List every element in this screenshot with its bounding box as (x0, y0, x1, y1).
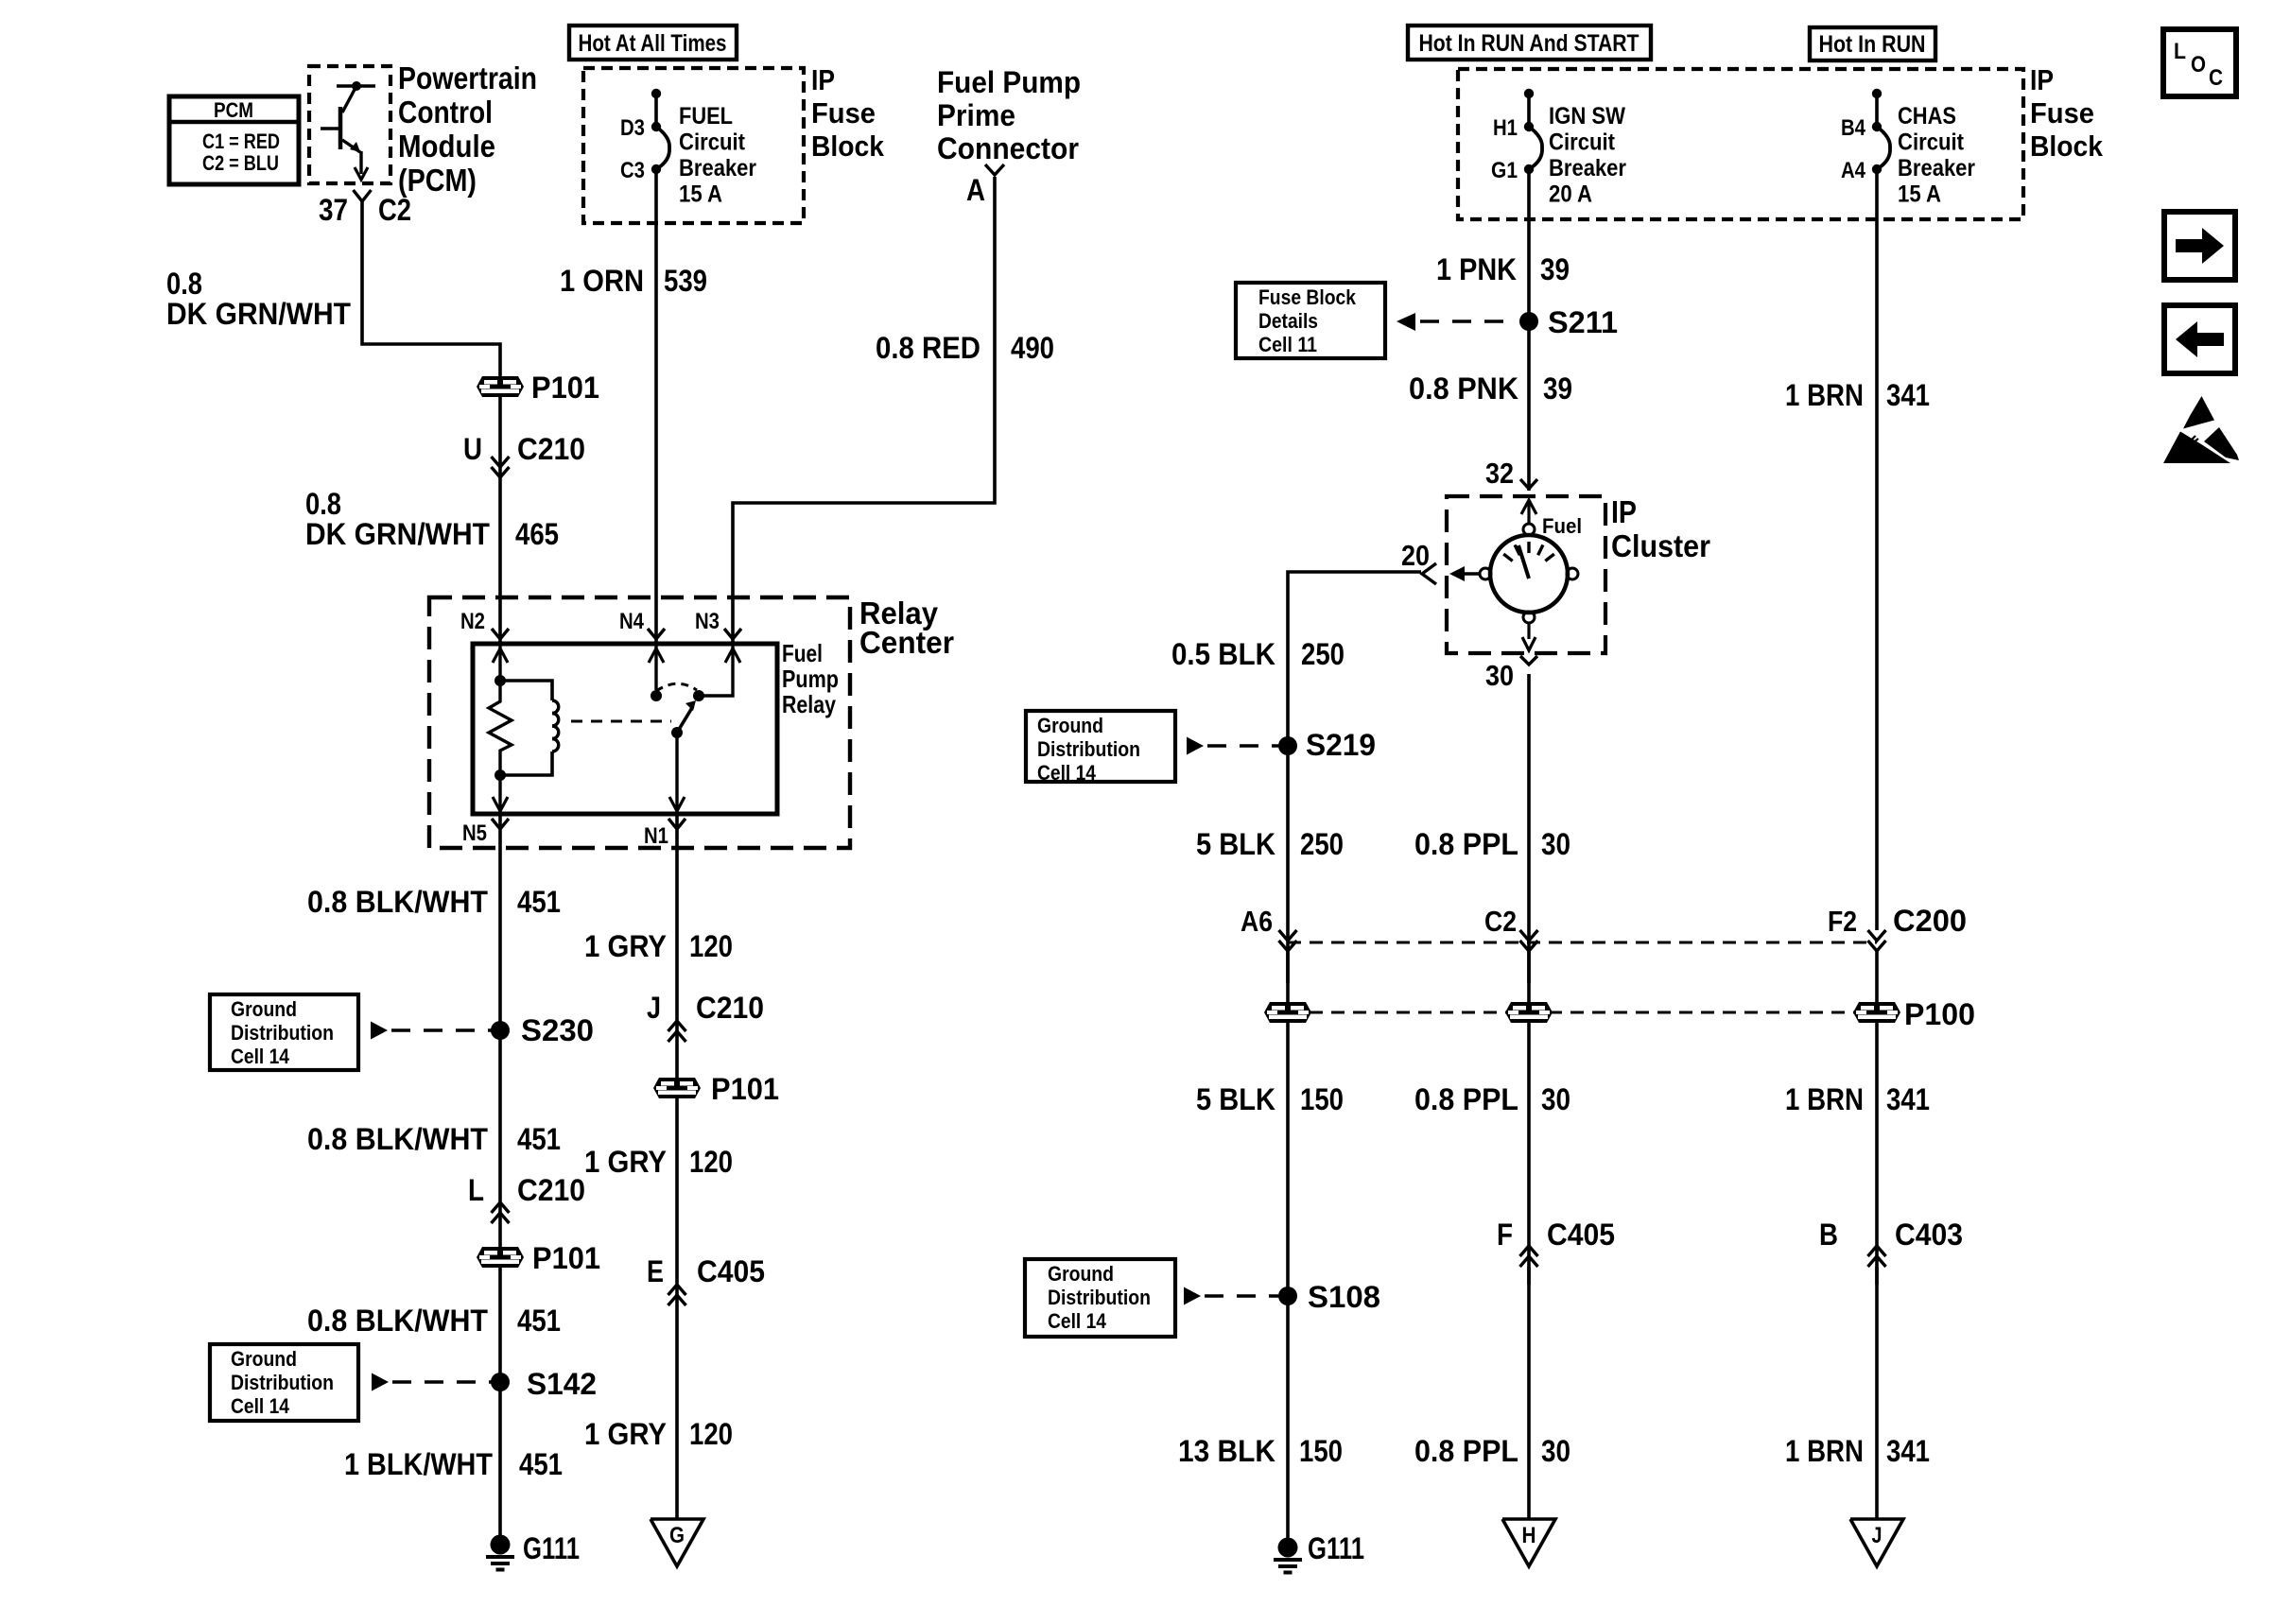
svg-text:1 BRN: 1 BRN (1785, 378, 1864, 412)
reference arrow to splice S211 (1397, 313, 1415, 331)
svg-text:Distribution: Distribution (1048, 1286, 1151, 1309)
svg-text:IP: IP (1611, 494, 1637, 529)
relay switch fixed contact from N4 (654, 644, 657, 690)
svg-text:1 BRN: 1 BRN (1785, 1082, 1864, 1116)
svg-text:Cell 14: Cell 14 (1048, 1309, 1107, 1333)
terminal N4 relay (648, 629, 665, 639)
svg-text:30: 30 (1485, 659, 1514, 692)
svg-text:Fuse: Fuse (811, 96, 876, 130)
IP fuse block dashed box right (1458, 69, 2023, 219)
svg-text:0.8 PPL: 0.8 PPL (1414, 1434, 1518, 1468)
wire A6 to S108 (1286, 951, 1290, 1296)
svg-text:5 BLK: 5 BLK (1196, 827, 1275, 861)
svg-text:IGN SW: IGN SW (1549, 103, 1625, 130)
relay coil branch wires (498, 644, 501, 681)
svg-text:150: 150 (1300, 1082, 1344, 1116)
svg-text:C2: C2 (378, 193, 411, 227)
Fuel Pump Relay box (473, 644, 777, 814)
svg-text:1 GRY: 1 GRY (584, 1145, 667, 1179)
svg-text:1 BRN: 1 BRN (1785, 1434, 1864, 1468)
PCM module dashed box (309, 66, 390, 183)
ground terminal G triangle (651, 1519, 703, 1566)
svg-text:539: 539 (664, 264, 707, 298)
wire 1 GRY 120 from N1 to ground G (675, 814, 679, 1519)
svg-text:A6: A6 (1241, 905, 1273, 938)
svg-text:Relay: Relay (782, 690, 836, 718)
svg-text:0.8: 0.8 (166, 267, 202, 301)
reference arrow to splice S219 (1187, 737, 1204, 755)
relay coil-switch linkage dashes (571, 720, 671, 723)
icon arrow right box (2164, 212, 2235, 280)
svg-text:S108: S108 (1308, 1280, 1380, 1314)
svg-text:Distribution: Distribution (1037, 737, 1140, 761)
ground G111 right (1278, 1538, 1298, 1558)
svg-text:Fuel: Fuel (1542, 514, 1582, 538)
header Hot In RUN (1810, 27, 1935, 60)
svg-text:N4: N4 (619, 609, 645, 634)
svg-text:P100: P100 (1904, 997, 1975, 1031)
inline connector P100 on BLK (1264, 1002, 1311, 1023)
svg-text:30: 30 (1541, 1082, 1570, 1116)
reference arrow to splice S142 (372, 1373, 389, 1391)
svg-text:Ground: Ground (231, 1347, 297, 1371)
svg-text:0.8: 0.8 (305, 487, 341, 521)
junction dot coil top (495, 675, 506, 686)
svg-text:C1 = RED: C1 = RED (202, 130, 280, 153)
splice S230 (491, 1021, 510, 1040)
svg-text:O: O (2191, 52, 2206, 78)
svg-text:C210: C210 (517, 1173, 585, 1207)
header Hot In RUN And START (1408, 26, 1651, 60)
svg-text:DK GRN/WHT: DK GRN/WHT (305, 517, 490, 551)
svg-text:Fuel Pump: Fuel Pump (937, 65, 1081, 99)
svg-text:465: 465 (515, 517, 559, 551)
svg-text:Breaker: Breaker (1549, 155, 1626, 181)
svg-text:FUEL: FUEL (679, 103, 733, 130)
reference box Ground Distribution Cell 14 for S219 (1026, 711, 1175, 782)
svg-text:37: 37 (319, 193, 348, 227)
icon arrow left box (2164, 305, 2235, 373)
svg-text:0.8 PPL: 0.8 PPL (1414, 1082, 1518, 1116)
svg-text:Cell 14: Cell 14 (231, 1045, 290, 1068)
wire 0.8 DK GRN/WHT from PCM pin 37 (362, 201, 500, 376)
svg-text:120: 120 (689, 1145, 733, 1179)
terminal A fuel pump prime connector (985, 164, 1004, 175)
svg-text:N3: N3 (695, 609, 720, 634)
svg-text:20 A: 20 A (1549, 181, 1592, 208)
svg-text:Breaker: Breaker (1898, 155, 1975, 181)
svg-text:B4: B4 (1841, 115, 1866, 141)
svg-text:S219: S219 (1306, 728, 1376, 762)
svg-text:Ground: Ground (1037, 714, 1103, 737)
svg-text:Cluster: Cluster (1611, 528, 1710, 563)
svg-text:C210: C210 (696, 991, 764, 1025)
splice S211 (1519, 312, 1538, 331)
terminal 30 IP cluster (1520, 656, 1537, 665)
wire 0.5 BLK 250 from gauge pin 20 (1288, 572, 1421, 983)
svg-text:C403: C403 (1895, 1218, 1963, 1252)
svg-text:U: U (463, 432, 482, 466)
svg-text:Cell 14: Cell 14 (1037, 761, 1097, 785)
terminal N1 relay (668, 819, 685, 829)
svg-text:5 BLK: 5 BLK (1196, 1082, 1275, 1116)
relay resistor (489, 681, 512, 775)
relay switch moving contact to N3 (699, 644, 733, 696)
svg-text:G111: G111 (523, 1531, 580, 1565)
IP Cluster dashed box (1447, 496, 1605, 653)
svg-text:H: H (1522, 1523, 1536, 1548)
terminal N3 relay (724, 629, 741, 639)
svg-text:Distribution: Distribution (231, 1371, 334, 1394)
terminal N2 relay (492, 629, 509, 639)
svg-text:Cell 14: Cell 14 (231, 1394, 290, 1418)
inline connector P100 dashed link (1288, 1011, 1877, 1014)
svg-text:1 BLK/WHT: 1 BLK/WHT (344, 1447, 493, 1481)
header Hot At All Times (569, 26, 737, 60)
svg-text:150: 150 (1299, 1434, 1343, 1468)
svg-text:C210: C210 (517, 432, 585, 466)
svg-text:30: 30 (1541, 1434, 1570, 1468)
fuel gauge output arrows (1527, 623, 1530, 639)
svg-text:H1: H1 (1493, 115, 1518, 141)
svg-text:Fuel: Fuel (782, 639, 823, 667)
svg-text:B: B (1819, 1218, 1838, 1252)
svg-text:0.8 BLK/WHT: 0.8 BLK/WHT (307, 885, 488, 919)
svg-text:0.8 BLK/WHT: 0.8 BLK/WHT (307, 1122, 488, 1156)
wire 1 BRN 341 to ground J (1875, 1267, 1879, 1519)
inline connector P101 on GRY (653, 1078, 701, 1098)
svg-text:C405: C405 (1547, 1218, 1615, 1252)
svg-text:0.5 BLK: 0.5 BLK (1171, 637, 1275, 671)
connector C200 dashed crossing line (1288, 942, 1877, 944)
transistor Q1 PCM fuel pump driver (337, 84, 375, 88)
terminal 37 C2 on PCM (354, 190, 372, 201)
svg-text:S211: S211 (1548, 305, 1618, 339)
svg-text:N1: N1 (644, 823, 668, 849)
inline connector P101 lower left (477, 1247, 524, 1268)
svg-text:Hot In RUN And START: Hot In RUN And START (1419, 30, 1640, 57)
svg-text:D3: D3 (620, 115, 645, 141)
svg-text:Hot At All Times: Hot At All Times (579, 30, 727, 57)
splice S108 (1278, 1287, 1297, 1305)
svg-text:Control: Control (398, 95, 493, 130)
reference box Ground Distribution Cell 14 for S230 (210, 994, 358, 1070)
relay coil (552, 700, 559, 714)
terminal N5 relay (492, 819, 509, 829)
svg-text:13 BLK: 13 BLK (1178, 1434, 1275, 1468)
svg-text:341: 341 (1886, 378, 1930, 412)
svg-text:PCM: PCM (214, 98, 253, 122)
svg-text:IP: IP (811, 63, 835, 96)
svg-text:15 A: 15 A (1898, 181, 1941, 208)
relay switch throw dashed arc (656, 683, 697, 691)
svg-text:S230: S230 (521, 1013, 594, 1047)
svg-text:Fuse: Fuse (2030, 96, 2094, 130)
svg-text:J: J (1872, 1523, 1883, 1548)
svg-text:Circuit: Circuit (1898, 130, 1965, 156)
svg-text:P101: P101 (532, 1241, 600, 1275)
svg-text:Prime: Prime (937, 98, 1015, 132)
svg-text:C2: C2 (1484, 905, 1517, 938)
fuel gauge ticks and needle (1503, 554, 1512, 561)
relay switch output wire to N1 (675, 733, 678, 814)
svg-text:A4: A4 (1841, 158, 1866, 183)
svg-text:Hot In RUN: Hot In RUN (1819, 31, 1926, 58)
svg-text:F: F (1497, 1218, 1513, 1252)
svg-text:Block: Block (2030, 130, 2104, 163)
svg-text:451: 451 (517, 1304, 561, 1338)
svg-text:0.8 RED: 0.8 RED (876, 331, 980, 365)
svg-text:250: 250 (1300, 827, 1344, 861)
svg-text:Center: Center (859, 625, 954, 660)
wire 1 ORN 539 from breaker C3 to relay N4 (654, 169, 658, 644)
wire 0.8 PPL 30 from IP cluster (1527, 674, 1531, 983)
svg-text:Details: Details (1258, 309, 1318, 333)
svg-text:Powertrain: Powertrain (398, 60, 537, 95)
wire 13 BLK 150 from S108 to G111 (1286, 1296, 1290, 1547)
svg-text:451: 451 (517, 1122, 561, 1156)
svg-text:30: 30 (1541, 827, 1570, 861)
svg-text:CHAS: CHAS (1898, 103, 1956, 130)
svg-text:Breaker: Breaker (679, 155, 756, 181)
svg-text:250: 250 (1301, 637, 1345, 671)
svg-text:Connector: Connector (937, 131, 1079, 165)
svg-text:C405: C405 (697, 1254, 765, 1288)
icon ESD static sensitive warning (2183, 396, 2214, 429)
inline connector P101 on DK GRN/WHT (477, 376, 524, 397)
svg-text:Circuit: Circuit (679, 130, 746, 156)
inline connector P100 on BRN (1853, 1002, 1900, 1023)
svg-text:120: 120 (689, 929, 733, 963)
icon LOC locator box (2163, 29, 2236, 96)
circuit breaker IGN SW 20 A (1524, 89, 1534, 98)
svg-text:J: J (647, 991, 661, 1025)
wire 0.8 PPL 30 to ground H (1527, 1267, 1531, 1519)
reference arrow to splice S108 (1184, 1287, 1201, 1305)
svg-text:39: 39 (1540, 252, 1570, 286)
svg-text:451: 451 (517, 885, 561, 919)
svg-text:C3: C3 (620, 158, 645, 183)
ground terminal J triangle (1850, 1519, 1903, 1566)
svg-text:L: L (468, 1173, 484, 1207)
wire F2 to C403 B (1875, 951, 1879, 1285)
svg-text:N5: N5 (462, 821, 487, 846)
svg-text:A: A (966, 173, 985, 207)
svg-text:S142: S142 (527, 1367, 597, 1401)
svg-text:C2 = BLU: C2 = BLU (202, 151, 279, 175)
svg-text:C200: C200 (1893, 904, 1967, 938)
svg-text:490: 490 (1011, 331, 1054, 365)
svg-text:20: 20 (1401, 539, 1430, 572)
svg-text:Ground: Ground (1048, 1262, 1114, 1286)
svg-text:451: 451 (519, 1447, 563, 1481)
junction dot coil bottom (495, 769, 506, 781)
svg-text:Cell 11: Cell 11 (1258, 333, 1317, 356)
IP fuse block dashed box left (583, 68, 804, 223)
wire 1 BRN 341 from breaker A4 (1875, 169, 1879, 930)
svg-text:L: L (2174, 39, 2186, 64)
wire 1 PNK 39 from breaker G1 (1527, 169, 1531, 321)
wire 0.8 RED 490 to relay N3 (733, 177, 995, 644)
svg-text:DK GRN/WHT: DK GRN/WHT (166, 297, 351, 331)
svg-text:0.8 PPL: 0.8 PPL (1414, 827, 1518, 861)
svg-text:E: E (647, 1254, 664, 1288)
svg-text:120: 120 (689, 1417, 733, 1451)
svg-text:G1: G1 (1491, 158, 1518, 183)
wire 0.8 BLK/WHT 451 from N5 to G111 (498, 814, 502, 1545)
svg-text:IP: IP (2030, 63, 2054, 96)
svg-text:0.8 BLK/WHT: 0.8 BLK/WHT (307, 1304, 488, 1338)
svg-text:Distribution: Distribution (231, 1021, 334, 1045)
fuel gauge in IP cluster (1521, 500, 1536, 514)
Relay Center dashed box (429, 597, 850, 848)
wire C2 to C405 F (1527, 951, 1531, 1285)
reference box Ground Distribution Cell 14 for S108 (1025, 1259, 1175, 1337)
relay switch arm (671, 727, 683, 738)
reference box Ground Distribution Cell 14 for S142 (210, 1344, 358, 1421)
svg-text:Pump: Pump (782, 665, 839, 693)
svg-text:N2: N2 (460, 609, 485, 634)
svg-text:0.8 PNK: 0.8 PNK (1409, 371, 1518, 406)
svg-text:P101: P101 (711, 1072, 779, 1106)
svg-text:1 PNK: 1 PNK (1436, 252, 1517, 286)
svg-text:1 GRY: 1 GRY (584, 929, 667, 963)
splice S219 (1278, 736, 1297, 755)
svg-text:Fuse Block: Fuse Block (1258, 285, 1357, 309)
svg-text:Module: Module (398, 129, 495, 164)
reference box Fuse Block Details Cell 11 (1236, 283, 1385, 358)
PCM legend box (169, 96, 299, 184)
ground G111 left (491, 1535, 511, 1555)
inline connector P100 on PPL (1505, 1002, 1553, 1023)
svg-text:Block: Block (811, 130, 885, 163)
splice S142 (491, 1373, 510, 1391)
wire DK GRN/WHT 465 into relay N2 (498, 397, 502, 644)
ground terminal H triangle (1502, 1519, 1555, 1566)
circuit breaker FUEL 15 A (651, 89, 661, 98)
svg-text:341: 341 (1886, 1082, 1930, 1116)
svg-text:341: 341 (1886, 1434, 1930, 1468)
svg-text:1 ORN: 1 ORN (560, 264, 644, 298)
circuit breaker CHAS 15 A (1872, 89, 1882, 98)
svg-text:39: 39 (1543, 371, 1572, 406)
wire 0.8 PNK 39 to IP cluster pin 32 (1527, 321, 1531, 491)
svg-text:P101: P101 (531, 371, 599, 405)
svg-text:C: C (2209, 65, 2223, 91)
svg-text:G111: G111 (1308, 1531, 1364, 1565)
reference arrow to splice S230 (371, 1022, 388, 1040)
svg-text:15 A: 15 A (679, 181, 722, 208)
svg-text:Ground: Ground (231, 997, 297, 1021)
svg-text:G: G (669, 1523, 685, 1548)
svg-text:32: 32 (1485, 457, 1514, 490)
svg-text:1 GRY: 1 GRY (584, 1417, 667, 1451)
svg-text:F2: F2 (1828, 905, 1857, 938)
svg-text:Circuit: Circuit (1549, 130, 1616, 156)
